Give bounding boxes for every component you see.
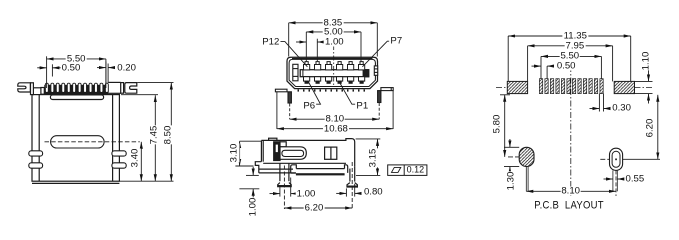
pcb view texts bbox=[563, 31, 588, 40]
shelf top line bbox=[259, 168, 293, 170]
dimension 10.68 bbox=[277, 91, 393, 129]
bottom row pins P6..P1 bbox=[304, 77, 365, 84]
dimension 5.00 bbox=[306, 32, 361, 61]
tongue bar left cap line bbox=[302, 70, 304, 77]
tongue bar bbox=[300, 70, 369, 77]
center slot rounded bbox=[51, 136, 105, 148]
dimension 6.20 side bbox=[284, 207, 352, 209]
dimension 0.50 bbox=[37, 64, 61, 76]
label P12 leader bbox=[279, 42, 307, 67]
rear foot bbox=[347, 183, 357, 187]
dimension 0.55 bbox=[604, 178, 623, 180]
right flange bottom line bbox=[109, 92, 121, 94]
top-left small tab bbox=[269, 138, 277, 140]
left vertical bar bbox=[31, 83, 34, 95]
right flange top line bbox=[109, 81, 121, 83]
label P6 leader bbox=[308, 81, 321, 104]
dimension 5.50 pcb bbox=[541, 56, 601, 78]
pin support bar bbox=[50, 95, 103, 100]
dimension 0.80 bbox=[336, 184, 360, 197]
right oval pad outer bbox=[610, 148, 623, 170]
left oval pad hatched bbox=[519, 147, 534, 166]
horizontal centerline dashdot left bbox=[496, 87, 508, 89]
right clip hook bbox=[125, 83, 137, 94]
dimension 5.80 bbox=[500, 95, 519, 157]
flatness tolerance box bbox=[388, 165, 427, 176]
flange line left bbox=[33, 87, 41, 89]
dimension 5.50 bbox=[47, 56, 106, 88]
body inner wall right bbox=[112, 95, 114, 182]
latch finger bbox=[282, 150, 304, 156]
blade top line bbox=[296, 168, 344, 170]
dimension 7.45 bbox=[121, 95, 158, 182]
right clip vertical bar bbox=[121, 83, 124, 94]
horizontal centerline dashdot right bbox=[635, 87, 653, 89]
board lock tab right upper bbox=[112, 151, 126, 156]
left leg bbox=[288, 92, 291, 103]
front leg dashed centerline bbox=[283, 166, 285, 210]
top row pins P12..P7 bbox=[304, 62, 365, 70]
blade left tab bbox=[291, 165, 297, 173]
dimension 3.15 bbox=[356, 139, 381, 176]
right solder pad bbox=[614, 81, 634, 93]
inner left bracket bbox=[293, 64, 298, 81]
dimension 1.00 bottom bbox=[270, 178, 297, 197]
pin left end cap bbox=[41, 88, 44, 95]
body outer rect bbox=[32, 95, 119, 182]
inner right bracket bbox=[374, 66, 377, 75]
L bracket bbox=[274, 142, 280, 161]
dimension 6.20 pcb bbox=[657, 95, 659, 160]
front leg bbox=[279, 163, 281, 181]
left solder pad bbox=[507, 81, 527, 93]
dimension 8.10 front bbox=[290, 103, 380, 119]
12 pin pads bbox=[539, 79, 603, 94]
blade bottom dark bbox=[296, 173, 345, 175]
center dash line front view bbox=[333, 45, 335, 87]
dimension 1.00 bbox=[296, 39, 326, 62]
vertical dashed centerline pcb bbox=[570, 66, 572, 196]
left mounting flange bbox=[275, 89, 287, 92]
dimension 0.20 bbox=[97, 62, 115, 84]
board lock tab left upper bbox=[29, 151, 43, 156]
dimension 1.00 vertical left bbox=[239, 167, 259, 198]
tongue bar right dark cap bbox=[363, 70, 369, 77]
12 pin hoops bbox=[45, 83, 108, 92]
left clip bbox=[18, 83, 31, 92]
right oval drop lines / 0.55 ticks bbox=[612, 170, 614, 191]
front step bbox=[255, 162, 261, 173]
right oval vertical dashed below bbox=[615, 170, 617, 196]
shelf bottom line bbox=[259, 172, 296, 174]
dimension 0.30 bbox=[590, 94, 609, 112]
rear leg bbox=[349, 169, 351, 182]
board lock tab right lower bbox=[112, 163, 126, 168]
dimension 7.95 bbox=[528, 46, 613, 82]
L bracket top arm bbox=[280, 142, 286, 147]
label P7 leader bbox=[362, 41, 390, 67]
right oval horiz centerline bbox=[600, 158, 609, 160]
board lock tab left lower bbox=[29, 163, 43, 168]
right oval pad inner bbox=[612, 151, 620, 167]
slot dashed centerline bbox=[45, 141, 140, 143]
dimension 3.40 bbox=[140, 142, 142, 181]
front face bbox=[260, 140, 262, 161]
left view dim texts bbox=[66, 54, 87, 63]
dimension 11.35 bbox=[508, 36, 631, 81]
square detail pair bbox=[325, 147, 337, 159]
rear leg dashed centerline bbox=[351, 162, 353, 209]
blade right tab bbox=[345, 165, 348, 173]
side view texts bbox=[228, 144, 239, 163]
right oval centerline ext to 6.20 bbox=[623, 158, 660, 160]
shell outer outline bbox=[287, 57, 378, 88]
body bottom line bbox=[263, 162, 346, 164]
shell bottom teeth bbox=[298, 89, 366, 91]
dimension 8.50 bbox=[119, 83, 173, 182]
pin band dark bbox=[44, 85, 108, 94]
body top and right outline bbox=[261, 139, 354, 167]
dimension 8.10 pcb bbox=[526, 190, 616, 192]
left oval drop lines bbox=[525, 167, 527, 192]
latch slot bbox=[280, 147, 306, 160]
dimension 8.35 bbox=[289, 23, 378, 57]
dimension 3.10 bbox=[235, 141, 262, 166]
dimension 1.30 bbox=[504, 139, 519, 172]
body inner wall left bbox=[38, 95, 40, 182]
dimension 1.10 bbox=[635, 52, 653, 104]
front view texts bbox=[323, 18, 344, 27]
shell inner outline bbox=[289, 59, 375, 86]
shell top inner band bbox=[292, 57, 373, 59]
right mounting flange bbox=[381, 88, 393, 91]
dimension 0.50 pcb bbox=[532, 66, 553, 79]
body second bottom line bbox=[32, 182, 119, 184]
front foot bbox=[278, 183, 292, 187]
right oval center dot bbox=[615, 159, 617, 161]
right leg bbox=[378, 91, 381, 103]
label P1 leader bbox=[339, 81, 358, 104]
